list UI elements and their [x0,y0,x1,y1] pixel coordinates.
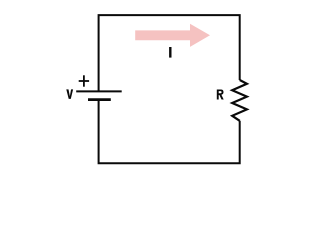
wire: bottom rail with left and right vertical risers [99,100,240,164]
battery V: long positive plate [76,90,122,92]
label I [169,47,171,58]
wire: top rail with left and right vertical drops [99,15,240,91]
label R [217,90,224,100]
label V [66,89,73,99]
current arrow I [135,24,210,47]
battery V: short negative plate [88,98,111,101]
battery plus sign [79,75,89,86]
resistor R zigzag [232,80,247,121]
